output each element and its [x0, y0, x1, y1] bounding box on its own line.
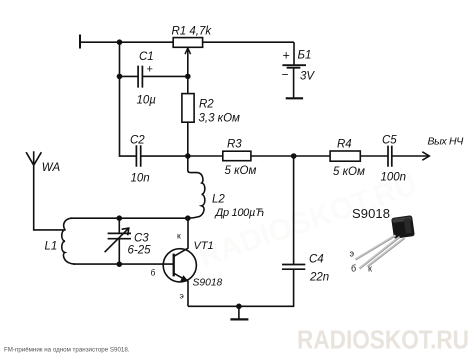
battery ground bar [286, 97, 303, 99]
svg-text:C4: C4 [309, 254, 324, 266]
svg-text:+: + [147, 64, 153, 76]
svg-text:R2: R2 [199, 99, 214, 111]
wire: C5 to output arrow [392, 155, 429, 157]
svg-text:S9018: S9018 [352, 206, 390, 221]
wire: battery drop [293, 42, 295, 65]
inductor L2 (choke) [188, 156, 205, 218]
svg-text:5 кОм: 5 кОм [225, 165, 257, 177]
svg-text:R1 4,7k: R1 4,7k [172, 26, 213, 38]
wire: R1 wiper vertical [187, 50, 189, 77]
node dot: R2 bottom / C2 / R3 / L2 [185, 153, 191, 159]
battery B1 plates [282, 64, 306, 66]
svg-text:22n: 22n [309, 272, 329, 284]
capacitor C3 leads [118, 218, 120, 233]
svg-text:R4: R4 [337, 139, 352, 151]
svg-text:5 кОм: 5 кОм [333, 166, 365, 178]
wire: C2 right lead [141, 155, 188, 157]
wire: left rail down to C2 corner [120, 42, 137, 156]
output arrowhead [422, 152, 429, 160]
C3 variable arrow [105, 228, 129, 252]
emitter arrowhead [181, 276, 188, 281]
antenna WA [34, 165, 64, 230]
resistor R3 body [223, 151, 251, 161]
ground stub at emitter rail [238, 306, 240, 318]
svg-text:100n: 100n [381, 172, 407, 184]
wire: tank bottom rail to transistor base [73, 263, 174, 265]
node dot: emitter rail / ground [236, 304, 242, 310]
svg-text:C1: C1 [139, 51, 154, 63]
svg-text:R3: R3 [227, 139, 242, 151]
svg-text:6-25: 6-25 [128, 245, 152, 257]
svg-text:э: э [180, 291, 184, 301]
photo: transistor TO-92 body [391, 215, 415, 239]
svg-text:Вых НЧ: Вых НЧ [428, 136, 465, 148]
node dot: L2 bottom / collector [185, 215, 191, 221]
collector lead [174, 218, 188, 256]
emitter lead [174, 273, 188, 306]
node dot: top rail / left rail [117, 39, 123, 45]
wire: R3 to R4 node [251, 155, 330, 157]
svg-text:3,3 кОм: 3,3 кОм [199, 113, 241, 125]
svg-text:к: к [368, 264, 372, 274]
capacitor C2 plates [136, 145, 140, 167]
svg-text:10n: 10n [131, 173, 150, 185]
R1 wiper arrowhead [185, 48, 191, 54]
transistor VT1 circle [163, 249, 196, 282]
svg-text:э: э [350, 249, 355, 259]
wire: top rail from terminal to battery corner [80, 41, 294, 43]
terminal (top-left open contact) [79, 35, 81, 49]
svg-text:+: + [283, 49, 290, 63]
resistor R1 body [173, 38, 202, 48]
node dot: C1 left [117, 74, 123, 80]
node dot: R3 / R4 / C4 [291, 153, 297, 159]
wire: R2 bottom lead [187, 122, 189, 156]
svg-text:WA: WA [42, 162, 61, 174]
inductor L1 [62, 218, 75, 264]
wire: emitter rail to C4 bottom [188, 270, 294, 307]
svg-text:VT1: VT1 [194, 240, 214, 252]
svg-text:C2: C2 [130, 135, 145, 147]
svg-text:б: б [351, 264, 356, 274]
node dot: C3 top [117, 215, 123, 221]
wire: C1 left lead [120, 75, 138, 77]
node dot: C1 right / R1 wiper / R2 top [185, 74, 191, 80]
svg-text:10µ: 10µ [137, 95, 157, 107]
C4 plates [282, 265, 305, 270]
svg-text:L1: L1 [45, 241, 58, 253]
wire: R4 to C5 [360, 155, 387, 157]
wire: node to R3 [188, 155, 223, 157]
resistor R2 body [182, 94, 194, 123]
photo: leg k [368, 238, 405, 267]
svg-text:S9018: S9018 [193, 278, 223, 289]
svg-text:C5: C5 [382, 135, 397, 147]
svg-text:C3: C3 [134, 233, 149, 245]
transistor base bar [173, 254, 175, 277]
svg-text:FM-приёмник на одном транзисто: FM-приёмник на одном транзисторе S9018. [4, 346, 130, 353]
node dot: C3 bottom [117, 261, 123, 267]
svg-text:б: б [151, 268, 156, 278]
capacitor C1 plates [138, 66, 142, 88]
wire: C1 right lead to R1 wiper node [143, 75, 188, 77]
photo: leg b [360, 237, 400, 269]
svg-text:Б1: Б1 [298, 50, 312, 62]
C3 plates [108, 233, 131, 238]
svg-text:3V: 3V [300, 70, 315, 82]
svg-text:Др 100µЋ: Др 100µЋ [214, 207, 265, 219]
svg-text:к: к [177, 231, 181, 241]
resistor R4 body [330, 151, 360, 161]
wire: R2 top lead [187, 76, 189, 93]
photo: leg e [356, 236, 396, 260]
svg-text:L2: L2 [212, 194, 225, 206]
svg-text:−: − [282, 67, 289, 81]
wire: tank top rail (L1 top / C3 top / collector node) [70, 217, 188, 219]
svg-text:RADIOSKOT.RU: RADIOSKOT.RU [297, 327, 469, 355]
capacitor C4 top lead [293, 156, 295, 264]
capacitor C5 plates [388, 146, 392, 167]
